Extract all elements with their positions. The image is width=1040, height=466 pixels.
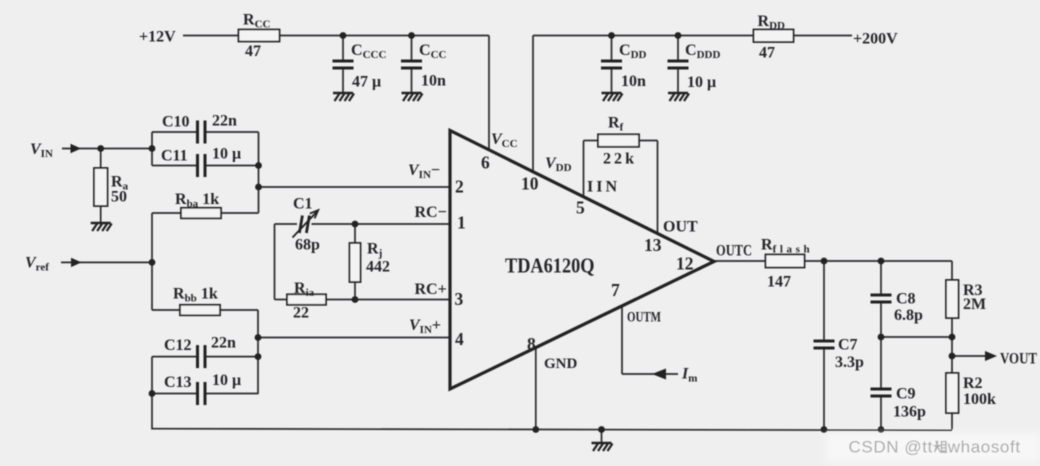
svg-text:10 μ: 10 μ <box>212 372 241 389</box>
svg-text:4: 4 <box>455 329 464 349</box>
svg-text:47: 47 <box>245 43 261 60</box>
svg-text:+200V: +200V <box>853 31 898 48</box>
svg-text:2: 2 <box>455 177 464 197</box>
svg-text:5: 5 <box>576 198 585 218</box>
svg-text:1: 1 <box>457 213 466 233</box>
svg-text:OUT: OUT <box>663 219 698 236</box>
svg-text:22n: 22n <box>212 113 237 130</box>
svg-text:22n: 22n <box>211 335 236 352</box>
svg-text:10 μ: 10 μ <box>687 74 716 91</box>
svg-text:C9: C9 <box>896 386 916 403</box>
svg-text:6.8p: 6.8p <box>894 307 923 324</box>
svg-text:C10: C10 <box>162 114 190 131</box>
svg-text:OUTC: OUTC <box>716 243 752 260</box>
svg-text:+12V: +12V <box>139 29 176 46</box>
svg-text:10n: 10n <box>421 73 446 90</box>
svg-text:10: 10 <box>521 174 539 194</box>
svg-text:C12: C12 <box>164 337 192 354</box>
svg-text:68p: 68p <box>295 237 320 254</box>
svg-text:147: 147 <box>767 274 791 291</box>
svg-text:3.3p: 3.3p <box>835 354 864 371</box>
svg-text:50: 50 <box>111 189 127 206</box>
svg-text:C8: C8 <box>896 291 916 308</box>
svg-text:22k: 22k <box>603 151 634 168</box>
svg-text:RC+: RC+ <box>415 281 447 298</box>
svg-text:C7: C7 <box>838 337 858 354</box>
svg-text:C13: C13 <box>164 374 192 391</box>
svg-text:C1: C1 <box>293 196 313 213</box>
svg-text:47 μ: 47 μ <box>352 74 381 91</box>
svg-text:C11: C11 <box>161 148 188 165</box>
svg-text:CSDN @tt: CSDN @tt <box>849 438 933 457</box>
svg-text:2M: 2M <box>963 296 986 313</box>
svg-text:OUTM: OUTM <box>627 310 661 326</box>
svg-text:100k: 100k <box>963 391 996 408</box>
svg-text:442: 442 <box>366 259 390 276</box>
svg-text:136p: 136p <box>893 404 926 421</box>
svg-text:VOUT: VOUT <box>1000 351 1037 368</box>
svg-text:10 μ: 10 μ <box>212 146 241 163</box>
svg-text:22: 22 <box>293 305 309 322</box>
svg-text:10n: 10n <box>621 73 646 90</box>
svg-text:IIN: IIN <box>587 179 617 196</box>
svg-text:7: 7 <box>611 280 620 300</box>
svg-text:RC−: RC− <box>415 204 447 221</box>
svg-text:3: 3 <box>455 289 464 309</box>
svg-text:47: 47 <box>759 45 775 62</box>
svg-text:12: 12 <box>676 254 694 274</box>
svg-text:whaosoft: whaosoft <box>947 438 1021 457</box>
svg-text:8: 8 <box>527 334 536 354</box>
svg-text:R2: R2 <box>963 375 983 392</box>
svg-text:GND: GND <box>544 356 578 372</box>
svg-text:TDA6120Q: TDA6120Q <box>505 254 595 278</box>
svg-text:13: 13 <box>644 235 662 255</box>
svg-text:6: 6 <box>481 153 490 173</box>
